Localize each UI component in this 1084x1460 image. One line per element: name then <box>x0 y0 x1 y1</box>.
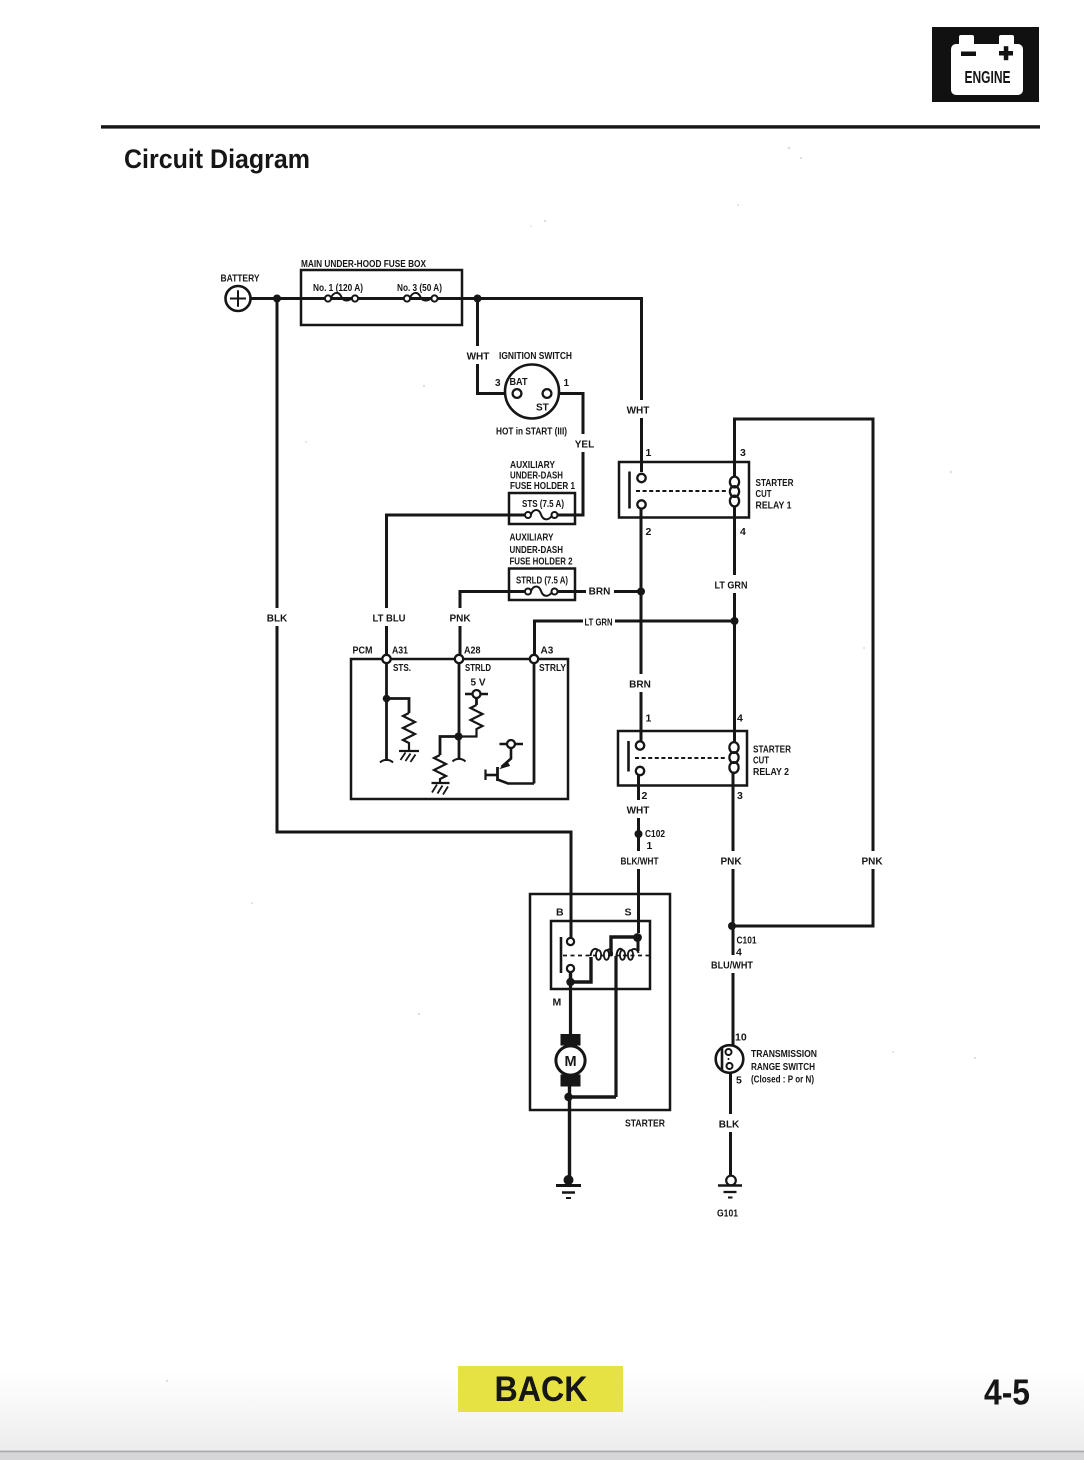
svg-text:A31: A31 <box>392 646 408 657</box>
svg-text:ST: ST <box>536 403 549 414</box>
svg-text:IGNITION SWITCH: IGNITION SWITCH <box>499 351 572 362</box>
svg-text:BATTERY: BATTERY <box>221 274 260 285</box>
svg-text:LT GRN: LT GRN <box>715 581 748 592</box>
svg-text:4: 4 <box>737 713 743 725</box>
svg-text:1: 1 <box>647 840 653 852</box>
svg-text:4: 4 <box>736 947 742 959</box>
svg-text:2: 2 <box>646 526 652 538</box>
svg-text:1: 1 <box>564 378 570 389</box>
svg-text:BAT: BAT <box>510 377 528 388</box>
svg-text:WHT: WHT <box>627 806 650 817</box>
svg-text:3: 3 <box>737 790 743 802</box>
svg-text:WHT: WHT <box>627 406 650 417</box>
svg-text:C102: C102 <box>645 828 665 840</box>
svg-text:4-5: 4-5 <box>984 1372 1030 1413</box>
svg-text:BACK: BACK <box>495 1369 588 1409</box>
svg-text:WHT: WHT <box>467 352 490 363</box>
svg-text:HOT in START (III): HOT in START (III) <box>496 427 567 438</box>
svg-text:FUSE HOLDER 1: FUSE HOLDER 1 <box>510 481 575 492</box>
svg-text:BLK/WHT: BLK/WHT <box>621 857 659 868</box>
svg-text:STS.: STS. <box>393 663 411 674</box>
svg-text:5: 5 <box>736 1075 742 1087</box>
svg-text:STRLY: STRLY <box>539 663 566 674</box>
svg-text:LT GRN: LT GRN <box>585 618 613 629</box>
svg-text:1: 1 <box>646 447 652 459</box>
svg-text:5 V: 5 V <box>471 678 486 689</box>
svg-text:AUXILIARY: AUXILIARY <box>510 460 555 471</box>
svg-text:BLK: BLK <box>719 1120 740 1131</box>
svg-text:A28: A28 <box>464 646 481 657</box>
svg-text:3: 3 <box>495 378 501 389</box>
svg-text:UNDER-DASH: UNDER-DASH <box>510 545 564 556</box>
svg-text:PNK: PNK <box>861 857 883 868</box>
svg-text:4: 4 <box>740 526 746 538</box>
svg-text:CUT: CUT <box>756 488 772 500</box>
svg-text:No. 1 (120 A): No. 1 (120 A) <box>313 283 363 294</box>
svg-text:TRANSMISSION: TRANSMISSION <box>751 1049 817 1060</box>
svg-text:RELAY 1: RELAY 1 <box>756 500 792 512</box>
svg-text:STRLD (7.5 A): STRLD (7.5 A) <box>516 576 568 587</box>
svg-text:CUT: CUT <box>753 755 769 767</box>
svg-text:No. 3 (50 A): No. 3 (50 A) <box>397 283 442 294</box>
svg-text:A3: A3 <box>541 646 554 657</box>
svg-text:BRN: BRN <box>589 587 611 598</box>
svg-text:S: S <box>625 907 632 919</box>
svg-text:RANGE SWITCH: RANGE SWITCH <box>751 1062 815 1073</box>
svg-text:RELAY 2: RELAY 2 <box>753 766 789 778</box>
svg-text:BLK: BLK <box>267 614 288 625</box>
svg-text:AUXILIARY: AUXILIARY <box>510 533 554 544</box>
svg-text:(Closed : P or N): (Closed : P or N) <box>751 1075 814 1086</box>
svg-text:2: 2 <box>642 790 648 802</box>
svg-text:Circuit Diagram: Circuit Diagram <box>124 144 310 174</box>
svg-text:3: 3 <box>740 447 746 459</box>
svg-text:G101: G101 <box>717 1209 738 1220</box>
svg-text:C101: C101 <box>737 935 757 947</box>
svg-text:ENGINE: ENGINE <box>965 67 1011 87</box>
svg-text:PNK: PNK <box>720 857 742 868</box>
svg-text:M: M <box>564 1054 576 1070</box>
svg-text:YEL: YEL <box>575 440 594 451</box>
svg-text:PNK: PNK <box>449 614 471 625</box>
svg-text:10: 10 <box>735 1032 747 1044</box>
svg-text:PCM: PCM <box>353 646 373 657</box>
svg-text:LT BLU: LT BLU <box>373 614 406 625</box>
svg-text:STARTER: STARTER <box>625 1119 666 1130</box>
svg-text:BLU/WHT: BLU/WHT <box>711 961 753 972</box>
svg-text:1: 1 <box>646 713 652 725</box>
svg-text:MAIN UNDER-HOOD FUSE BOX: MAIN UNDER-HOOD FUSE BOX <box>301 259 426 270</box>
svg-text:UNDER-DASH: UNDER-DASH <box>510 471 563 482</box>
svg-text:FUSE HOLDER 2: FUSE HOLDER 2 <box>510 557 573 568</box>
svg-text:M: M <box>553 997 562 1009</box>
svg-text:BRN: BRN <box>629 680 651 691</box>
svg-text:B: B <box>556 907 564 919</box>
svg-text:STRLD: STRLD <box>465 663 491 674</box>
svg-text:STS (7.5 A): STS (7.5 A) <box>522 499 564 510</box>
